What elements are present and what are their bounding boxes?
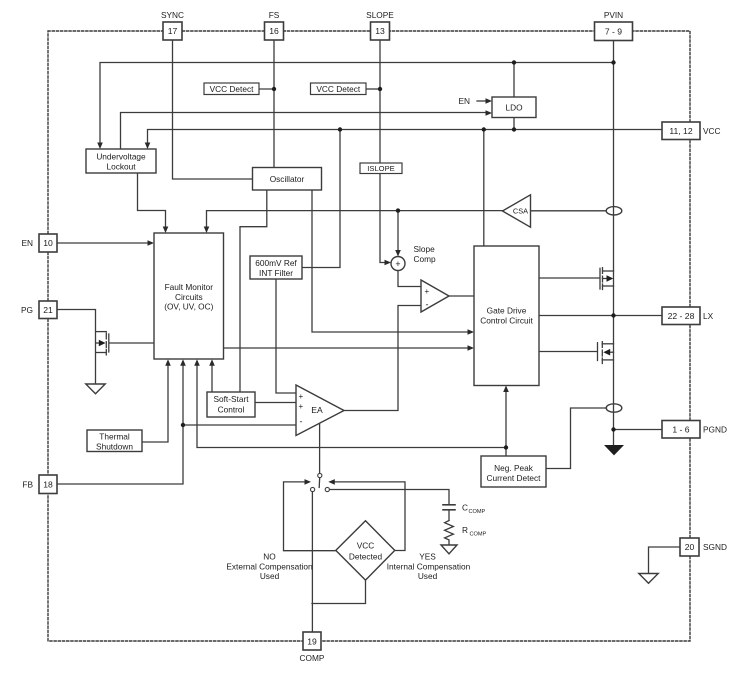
svg-text:21: 21 (43, 305, 53, 315)
decision diamond VCC Detected (336, 521, 395, 580)
arrowhead ISLOPE into summing node (385, 260, 392, 266)
ground symbol at PG MOSFET (86, 384, 105, 394)
wire PVIN vertical rail (613, 41, 615, 446)
arrowhead EN into Fault Monitor (148, 240, 155, 246)
svg-text:External Compensation: External Compensation (226, 561, 313, 571)
arrowhead CSA tap into summing node (395, 250, 401, 257)
svg-text:Thermal: Thermal (99, 431, 130, 441)
wire FB branch to EA minus (183, 424, 296, 426)
wire EN label arrow line (477, 100, 486, 102)
svg-text:Shutdown: Shutdown (96, 442, 133, 452)
svg-text:Undervoltage: Undervoltage (96, 151, 146, 161)
node FB / EA minus (181, 423, 185, 427)
wire Gate Drive to upper MOSFET gate (539, 277, 600, 279)
block VCC Detect 2 (311, 83, 367, 95)
svg-text:FB: FB (22, 479, 33, 489)
svg-text:-: - (426, 300, 429, 310)
node VCC rail / Gate Drive tap (482, 127, 486, 131)
block Soft-Start Control (207, 392, 255, 417)
svg-text:7 - 9: 7 - 9 (605, 26, 622, 36)
pin 16 FS (265, 22, 284, 40)
svg-text:Fault Monitor: Fault Monitor (165, 282, 214, 292)
pin 17 SYNC (163, 22, 182, 40)
pin 13 SLOPE (371, 22, 390, 40)
svg-text:Circuits: Circuits (175, 292, 203, 302)
svg-text:LX: LX (703, 311, 714, 321)
wire VCC to Gate Drive top (483, 130, 485, 247)
arrowhead UVLO into Fault Monitor (163, 227, 169, 234)
pin 11,12 VCC (662, 122, 700, 140)
pin 19 COMP (303, 632, 321, 650)
svg-text:(OV, UV, OC): (OV, UV, OC) (164, 302, 213, 312)
svg-text:LDO: LDO (505, 102, 523, 112)
svg-text:Used: Used (260, 571, 280, 581)
svg-text:Lockout: Lockout (106, 162, 136, 172)
node VCC rail / LDO output (512, 127, 516, 131)
wire Fault Monitor to PG MOSFET gate (109, 342, 154, 344)
IC boundary dashed border (48, 31, 690, 641)
switch throw contact right (325, 487, 329, 491)
svg-text:VCC: VCC (357, 540, 375, 550)
upper MOSFET Q1 structure (599, 268, 601, 289)
svg-text:600mV Ref: 600mV Ref (255, 258, 297, 268)
pin 7-9 PVIN (595, 22, 633, 41)
wire EA output to comparator minus (344, 306, 421, 411)
wire Oscillator output 2 to Gate Drive (312, 190, 468, 332)
svg-text:Oscillator: Oscillator (270, 174, 305, 184)
wire FB pin riser to Fault Monitor (57, 364, 183, 484)
block LDO U2 (492, 97, 536, 118)
svg-text:PGND: PGND (703, 424, 727, 434)
svg-text:20: 20 (685, 542, 695, 552)
svg-text:Control Circuit: Control Circuit (480, 316, 533, 326)
ARROWHEADS (97, 98, 509, 485)
op-amp CSA current sense amplifier (503, 195, 531, 227)
svg-text:SGND: SGND (703, 542, 727, 552)
wire YES-branch from diamond right to switch (335, 482, 406, 551)
ground symbol at Rcomp (441, 545, 457, 554)
resistor Rcomp (445, 521, 454, 546)
arrowhead Neg Peak into Gate Drive (503, 386, 509, 393)
arrowhead EN into LDO (486, 98, 493, 104)
arrowhead Thermal into FM bottom (165, 359, 171, 366)
svg-text:YES: YES (419, 552, 436, 562)
block 600mV Ref INT Filter (250, 256, 302, 279)
pin 20 SGND (680, 538, 699, 556)
svg-text:Comp: Comp (414, 254, 437, 264)
ground symbol PGND (filled) (604, 445, 624, 455)
PG MOSFET Q3 structure (108, 334, 110, 352)
wire CSA tap to summing node (397, 211, 399, 251)
arrowhead CSA rail into Fault Monitor (204, 227, 210, 234)
svg-text:+: + (395, 259, 400, 269)
svg-text:SYNC: SYNC (161, 10, 184, 20)
wire FS pin to Oscillator top (273, 40, 275, 168)
svg-text:ISLOPE: ISLOPE (367, 164, 394, 173)
wire 600mV Ref to EA plus1 (276, 279, 296, 393)
arrowhead VCC into UVLO (145, 143, 151, 150)
ground symbol at SGND (639, 574, 658, 584)
svg-text:Internal Compensation: Internal Compensation (387, 561, 471, 571)
block Fault Monitor Circuits (154, 233, 224, 359)
wire COMP pin riser (311, 492, 313, 632)
wire VCC rail y=130 (148, 130, 663, 144)
wire SYNC pin to Oscillator (173, 40, 253, 179)
op-amp slope comparator U3 (421, 280, 449, 312)
wire Oscillator output 1 to Soft-Start (240, 190, 267, 392)
svg-text:VCC Detect: VCC Detect (210, 84, 254, 94)
wire CSA input from upper sense oval (531, 210, 607, 212)
wire Gate Drive to lower MOSFET gate (539, 351, 597, 353)
svg-text:16: 16 (269, 26, 279, 36)
wire comparator output to Gate Drive (449, 295, 474, 297)
node LX (611, 313, 615, 317)
wire PVIN top rail y=63 to UVLO (100, 63, 614, 144)
wire Neg Peak Detect to Gate Drive (505, 390, 507, 456)
svg-text:COMP: COMP (470, 531, 487, 537)
block Thermal Shutdown (87, 430, 142, 452)
svg-text:SLOPE: SLOPE (366, 10, 394, 20)
arrowhead NO-branch into switch (305, 479, 312, 485)
svg-text:FS: FS (269, 10, 280, 20)
arrowhead PVIN into UVLO (97, 143, 103, 150)
wire EN pin to Fault Monitor (57, 242, 149, 244)
block VCC Detect 1 (204, 83, 259, 95)
wire negative-peak rail y=448 (197, 364, 506, 448)
svg-text:C: C (462, 502, 468, 512)
wire Soft-Start to EA plus2 (255, 402, 296, 404)
svg-text:Slope: Slope (414, 244, 436, 254)
arrowhead rail448 into FM bottom (194, 359, 200, 366)
wire Fault Monitor to Gate Drive rail (224, 347, 469, 349)
lower MOSFET Q2 structure (597, 343, 599, 361)
wire VCC to 600mV Ref (302, 130, 340, 268)
svg-text:Control: Control (218, 404, 245, 414)
svg-text:Detected: Detected (349, 552, 383, 562)
svg-text:PG: PG (21, 305, 33, 315)
wire lower sense oval tap to Neg Peak Detect (546, 408, 607, 469)
summing node Slope Comp circle (391, 257, 405, 271)
svg-text:+: + (298, 392, 303, 401)
node VCC rail / 600mV tap (338, 127, 342, 131)
svg-text:Used: Used (418, 571, 438, 581)
svg-text:EN: EN (458, 96, 470, 106)
svg-text:NO: NO (263, 552, 276, 562)
svg-text:EN: EN (21, 238, 33, 248)
arrowhead FB into FM bottom (180, 359, 186, 366)
svg-text:Gate Drive: Gate Drive (487, 305, 527, 315)
wire PG pin to PG MOSFET (57, 310, 96, 385)
svg-text:VCC Detect: VCC Detect (316, 84, 360, 94)
wire LDO top stub (513, 63, 515, 98)
pin 22-28 LX (662, 307, 700, 325)
arrowhead YES-branch into switch (328, 479, 335, 485)
transistor Q1 body arrow (607, 275, 614, 282)
arrowhead UVLO rail into LDO (486, 110, 493, 116)
wire summing node to comparator plus (398, 271, 421, 287)
pin 21 PG (39, 301, 57, 319)
transistor Q3 body arrow (99, 340, 106, 347)
svg-text:1 - 6: 1 - 6 (672, 424, 689, 434)
arrowhead SoftStart into FM bottom (209, 359, 215, 366)
block Neg Peak Current Detect (481, 456, 546, 487)
pin 1-6 PGND (662, 421, 700, 439)
wire EA bottom to switch pole (319, 423, 321, 473)
pin 10 EN (39, 234, 57, 252)
svg-text:CSA: CSA (513, 207, 528, 216)
block Oscillator (253, 168, 322, 191)
wire Thermal Shutdown to Fault Monitor (142, 364, 168, 442)
wire SGND pin to ground (649, 547, 681, 574)
op-amp EA error amplifier (296, 385, 344, 436)
wire switch right throw to Ccomp (329, 490, 449, 504)
svg-text:Current Detect: Current Detect (487, 473, 542, 483)
wire diamond bottom to COMP riser (312, 581, 366, 604)
block Gate Drive Control Circuit (474, 246, 539, 386)
wire Soft-Start to Fault Monitor riser (211, 364, 213, 392)
wire VCC Detect 1 tap (259, 88, 274, 90)
svg-text:EA: EA (311, 405, 323, 415)
wire Gate Drive to LX node and pin (539, 315, 662, 317)
svg-text:COMP: COMP (469, 509, 486, 515)
pin 18 FB (39, 475, 57, 494)
arrowhead FM rail into Gate Drive (468, 345, 475, 351)
svg-text:R: R (462, 525, 468, 535)
svg-text:-: - (300, 416, 303, 426)
wire CSA output rail to Fault Monitor (207, 211, 503, 228)
wire SLOPE pin to ISLOPE box (379, 40, 381, 163)
svg-text:INT Filter: INT Filter (259, 268, 293, 278)
node PGND (611, 427, 615, 431)
svg-text:VCC: VCC (703, 126, 721, 136)
svg-text:13: 13 (375, 26, 385, 36)
node FS / VCC Detect tap (272, 87, 276, 91)
capacitor Ccomp (443, 505, 455, 510)
svg-text:Soft-Start: Soft-Start (213, 394, 249, 404)
block Undervoltage Lockout (86, 149, 156, 173)
wire UVLO output to Fault Monitor (138, 173, 166, 228)
svg-text:+: + (298, 402, 303, 411)
sense oval lower (Neg Peak) (606, 404, 622, 412)
sense oval upper (CSA) (606, 207, 622, 215)
svg-text:+: + (424, 287, 429, 296)
arrowhead oscillator into Gate Drive (468, 329, 475, 335)
block ISLOPE (360, 163, 402, 174)
node Neg Peak / Gate Drive (504, 445, 508, 449)
switch pole contact (318, 473, 322, 477)
svg-text:10: 10 (43, 238, 53, 248)
wire ISLOPE to summing node (380, 174, 385, 263)
wire NO-branch from switch to diamond left (284, 482, 336, 551)
wire UVLO-to-LDO rail y=113 (121, 113, 487, 150)
svg-text:17: 17 (168, 26, 178, 36)
transistor Q2 body arrow (603, 349, 610, 356)
svg-text:19: 19 (307, 636, 317, 646)
svg-text:11, 12: 11, 12 (669, 126, 692, 136)
svg-text:22 - 28: 22 - 28 (668, 311, 695, 321)
wire switch blade (318, 477, 321, 487)
svg-text:Neg. Peak: Neg. Peak (494, 463, 534, 473)
wire LDO bottom stub (513, 118, 515, 130)
svg-text:COMP: COMP (300, 653, 325, 663)
svg-text:PVIN: PVIN (604, 10, 623, 20)
node CSA rail / summing tap (396, 208, 400, 212)
node LDO top / PVIN rail (512, 60, 516, 64)
switch throw contact left (311, 487, 315, 491)
node SLOPE / VCC Detect tap (378, 87, 382, 91)
wire VCC Detect 2 tap (366, 88, 380, 90)
node PVIN rail / PVIN line (611, 60, 615, 64)
svg-text:18: 18 (43, 479, 53, 489)
wire PGND node to pin (614, 429, 662, 431)
